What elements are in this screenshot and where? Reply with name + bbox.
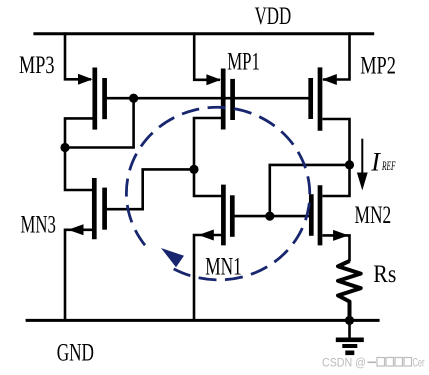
svg-text:I: I [370,148,381,177]
wire gate bus riser to node C [270,165,350,216]
svg-text:MN2: MN2 [355,200,392,229]
svg-text:Rs: Rs [373,259,396,288]
resistor Rs [338,261,361,320]
svg-text:MP3: MP3 [19,50,55,79]
wire MP1 drain to MN1 drain [194,118,221,196]
wire MP3 drain to node A [65,118,93,190]
transistor MP1 [206,69,232,130]
wire MP3 source from VDD [65,32,91,79]
svg-text:MN3: MN3 [21,210,56,239]
svg-text:VDD: VDD [255,1,292,30]
current IREF arrow [357,139,368,191]
transistor MP3 [78,68,105,130]
wire MN2 source to resistor [323,235,350,261]
wire MN3 gate to node B [107,169,194,209]
feedback loop dashed ellipse [122,103,314,285]
node C junction dot [345,160,354,169]
transistor MN1 [198,185,232,246]
svg-text:REF: REF [381,159,395,173]
node VDD rail [33,32,374,35]
node GND-Rs junction dot [345,316,354,325]
wire PMOS gate bus (MP3 gate to MP2 gate) [107,97,309,100]
svg-text:CSDN @: CSDN @ [322,358,366,370]
svg-text:MN1: MN1 [205,252,242,281]
node B junction dot [189,165,198,174]
svg-text:MP2: MP2 [360,51,396,80]
transistor MN3 [68,178,105,239]
wire MN3 source to GND [65,230,92,321]
wire MP3 diode connection (gate node down and left) [65,98,134,147]
feedback loop arrowhead [161,248,184,267]
node gate-bus junction dot [129,94,138,103]
svg-text:MP1: MP1 [227,47,260,76]
wire MP1 source from VDD [194,32,220,79]
transistor MP2 [311,67,337,130]
svg-text:ICer: ICer [411,358,425,370]
transistor MN2 [311,185,348,245]
node A junction dot [60,143,69,152]
ground [336,320,364,355]
node MN gates junction dot [265,212,274,221]
wire MP2 drain down through node C to MN2 drain [323,119,350,196]
wire MN1 gate to MN2 gate bus [235,215,310,218]
svg-text:GND: GND [57,338,94,367]
node GND rail [26,319,380,322]
watermark CSDN [322,358,425,370]
wire MN1 source to GND [194,235,221,320]
label IREF [370,148,395,177]
wire MP2 source from VDD [323,32,350,79]
